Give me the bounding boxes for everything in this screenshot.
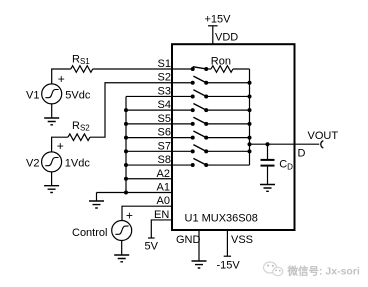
switch SW6 (open)	[172, 137, 193, 139]
power 5V bar	[148, 237, 155, 239]
node dot CD tap	[266, 142, 270, 146]
output bus vertical	[249, 69, 251, 165]
power +15V bar	[208, 25, 218, 27]
wire VDD vertical	[212, 26, 214, 44]
svg-text:1Vdc: 1Vdc	[65, 157, 91, 169]
switch SW7 (open)	[172, 150, 193, 152]
svg-text:S1: S1	[158, 58, 171, 70]
svg-text:Ron: Ron	[211, 56, 231, 68]
svg-text:S5: S5	[158, 113, 171, 125]
switch SW1 (closed) pins	[172, 68, 193, 70]
svg-text:U1 MUX36S08: U1 MUX36S08	[185, 212, 258, 224]
svg-text:GND: GND	[176, 234, 201, 246]
wire S3	[126, 95, 172, 97]
node dots on left ground bus	[124, 108, 128, 112]
watermark text	[287, 265, 360, 278]
voltage source Control	[112, 221, 132, 241]
ground (GND pin)	[192, 261, 207, 268]
wire V1 to RS1	[52, 69, 71, 84]
svg-text:V1: V1	[26, 89, 39, 101]
ground (below CD)	[260, 185, 275, 192]
svg-text:A2: A2	[157, 168, 170, 180]
svg-text:S2: S2	[158, 72, 171, 84]
wire V2 to RS2	[52, 137, 68, 152]
svg-text:+15V: +15V	[205, 14, 232, 26]
wire RS1 to S1 pin	[93, 68, 172, 70]
junction dots	[124, 67, 270, 194]
wire S7	[126, 150, 172, 152]
svg-text:微信号: Jx-sori: 微信号: Jx-sori	[287, 265, 360, 278]
capacitor CD	[267, 144, 269, 159]
wire S6	[126, 137, 172, 139]
ground (below Control)	[121, 241, 123, 256]
svg-text:S6: S6	[158, 127, 171, 139]
svg-text:VSS: VSS	[231, 234, 253, 246]
wire S4	[126, 109, 172, 111]
switch SW5 (open)	[172, 123, 193, 125]
svg-text:5Vdc: 5Vdc	[65, 89, 91, 101]
switch SW8 (open)	[172, 164, 193, 166]
wire RS2 up to S2 pin	[90, 83, 172, 137]
svg-text:Control: Control	[72, 227, 107, 239]
ground (A1 net)	[96, 192, 98, 201]
ground (below V1)	[51, 104, 53, 118]
svg-text:5V: 5V	[145, 240, 159, 252]
svg-text:+: +	[58, 72, 65, 86]
svg-text:+: +	[126, 209, 133, 223]
svg-text:VOUT: VOUT	[308, 130, 339, 142]
switch SW3 (open)	[172, 95, 193, 97]
wire output D net	[250, 143, 320, 145]
resistor RS2	[68, 134, 90, 141]
power -15V bar	[224, 255, 231, 257]
wire VSS pin	[226, 230, 228, 256]
wire A0 to Control source	[122, 206, 172, 220]
wire S5	[126, 123, 172, 125]
left ground bus vertical	[125, 96, 127, 192]
terminal VOUT	[321, 141, 323, 148]
resistor Ron	[211, 66, 233, 73]
svg-text:S7: S7	[158, 140, 171, 152]
wire GND pin	[198, 230, 200, 261]
voltage source V1	[42, 84, 62, 104]
svg-text:S4: S4	[158, 99, 171, 111]
svg-text:+: +	[57, 139, 64, 153]
svg-text:D: D	[298, 147, 306, 159]
ground (below V2)	[51, 172, 53, 186]
svg-text:VDD: VDD	[215, 32, 238, 44]
svg-text:S8: S8	[158, 154, 171, 166]
wire A1	[97, 191, 173, 193]
resistor RS1	[71, 66, 93, 73]
svg-text:S3: S3	[158, 85, 171, 97]
switch SW4 (open)	[172, 109, 193, 111]
node dots switch left pins	[191, 67, 195, 71]
svg-text:V2: V2	[26, 157, 39, 169]
svg-text:A0: A0	[157, 195, 170, 207]
svg-text:A1: A1	[157, 182, 170, 194]
svg-text:EN: EN	[154, 209, 169, 221]
wire S8	[126, 164, 172, 166]
wire A2	[126, 178, 172, 180]
node dots on output bus	[248, 81, 252, 85]
voltage source V2	[42, 152, 62, 172]
wire EN to 5V tap	[151, 220, 172, 238]
switch SW2 (open)	[172, 82, 193, 84]
svg-text:-15V: -15V	[217, 259, 241, 271]
node dots switch right pins	[204, 67, 208, 71]
watermark logo (WeChat)	[264, 262, 283, 276]
chip U1 rectangle	[172, 44, 295, 230]
